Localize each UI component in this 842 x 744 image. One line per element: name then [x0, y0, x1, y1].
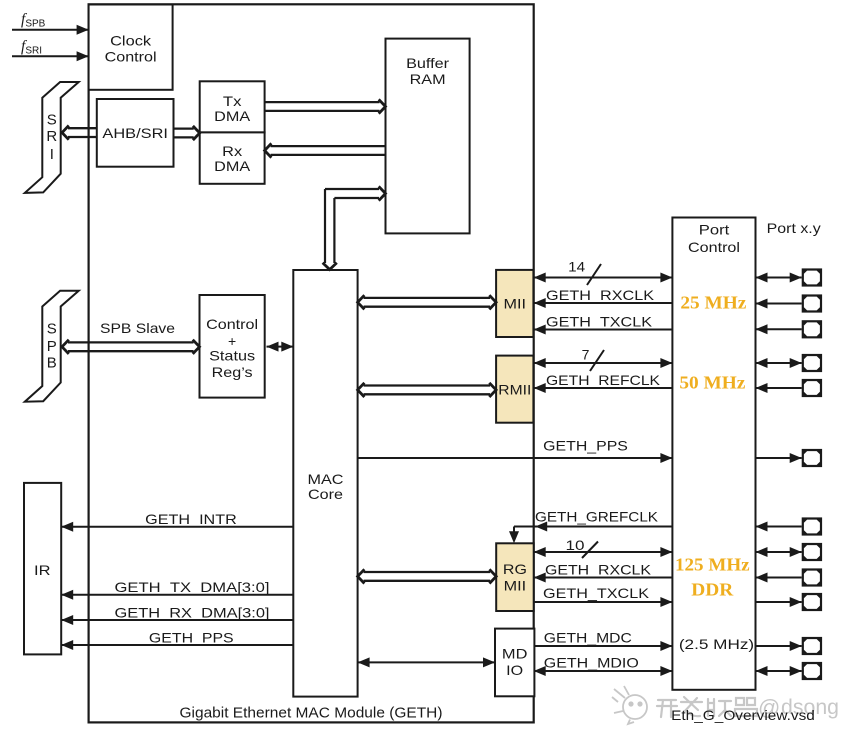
- module boundary Gigabit Ethernet MAC Module (GETH): [89, 4, 534, 722]
- wire Port Control to pad P6: [756, 453, 802, 463]
- svg-text:RG: RG: [503, 561, 527, 577]
- svg-text:I: I: [50, 146, 54, 163]
- IO pad P6: [802, 449, 822, 467]
- IO pad P10: [802, 593, 822, 611]
- IO pad P5: [802, 379, 822, 397]
- slash bus width 14: [587, 264, 601, 285]
- box Tx DMA: [200, 81, 265, 132]
- svg-text:Core: Core: [308, 486, 343, 502]
- svg-text:GETH_RXCLK: GETH_RXCLK: [545, 562, 652, 578]
- svg-text:MD: MD: [502, 646, 528, 662]
- svg-text:P: P: [47, 338, 57, 355]
- bus 7-bit RMII signals: [534, 358, 673, 368]
- svg-text:+: +: [228, 333, 236, 349]
- wire Port Control to pad P11: [756, 641, 802, 651]
- svg-text:GETH_INTR: GETH_INTR: [145, 511, 237, 527]
- wire Port Control to pad P1: [756, 273, 802, 283]
- slash bus width 7: [590, 350, 604, 371]
- svg-text:GETH_TXCLK: GETH_TXCLK: [543, 585, 650, 601]
- svg-text:S: S: [47, 321, 57, 338]
- bus 10-bit RGMII signals: [534, 547, 673, 557]
- svg-text:RAM: RAM: [410, 71, 446, 87]
- watermark logo: [612, 686, 647, 724]
- wire GETH_TXCLK (RGMII): [534, 597, 673, 607]
- bus Buffer RAM to Rx DMA: [265, 143, 386, 157]
- box Control + Status Reg's: [200, 295, 265, 398]
- svg-text:50 MHz: 50 MHz: [679, 373, 745, 393]
- svg-text:Gigabit Ethernet MAC Module (G: Gigabit Ethernet MAC Module (GETH): [180, 705, 443, 722]
- input wire fSPB: [12, 25, 89, 35]
- svg-text:Rx: Rx: [222, 143, 242, 159]
- wire GETH_PPS to IR: [61, 640, 293, 650]
- svg-text:SPB Slave: SPB Slave: [100, 320, 175, 336]
- bus ribbon SPB: [25, 291, 79, 402]
- svg-text:DMA: DMA: [214, 158, 251, 174]
- bus Tx DMA to Buffer RAM: [265, 99, 386, 113]
- box AHB/SRI: [97, 99, 174, 167]
- svg-text:Status: Status: [209, 348, 255, 364]
- svg-text:Reg’s: Reg’s: [212, 364, 253, 380]
- box RG MII: [496, 543, 534, 611]
- svg-text:R: R: [46, 128, 57, 145]
- box Buffer RAM: [386, 39, 470, 234]
- svg-text:(2.5 MHz): (2.5 MHz): [679, 636, 754, 652]
- bus SPB Slave double arrow: [62, 340, 200, 354]
- svg-text:GETH_RX_DMA[3:0]: GETH_RX_DMA[3:0]: [115, 604, 270, 620]
- svg-text:GETH_MDIO: GETH_MDIO: [544, 655, 639, 671]
- input wire fSRI: [12, 51, 89, 61]
- box MD IO: [495, 629, 534, 697]
- svg-text:Clock: Clock: [110, 33, 152, 49]
- bus AHB/SRI to SRI ribbon: [62, 126, 97, 140]
- bus ribbon SRI: [25, 82, 79, 193]
- svg-text:GETH_TX_DMA[3:0]: GETH_TX_DMA[3:0]: [115, 579, 270, 595]
- svg-text:7: 7: [582, 347, 590, 363]
- wire GETH_INTR MAC Core to IR: [61, 522, 293, 532]
- wire Control Status Regs to MAC Core: [267, 342, 294, 352]
- svg-text:25 MHz: 25 MHz: [680, 292, 746, 312]
- IO pad P2: [802, 294, 822, 312]
- IO pad P4: [802, 354, 822, 372]
- box Rx DMA: [200, 132, 265, 183]
- IO pad P8: [802, 543, 822, 561]
- svg-text:GETH_MDC: GETH_MDC: [544, 630, 632, 646]
- svg-text:Tx: Tx: [223, 93, 242, 109]
- svg-text:MAC: MAC: [308, 471, 344, 487]
- svg-text:S: S: [47, 112, 57, 129]
- IO pad P9: [802, 568, 822, 586]
- bus MAC Core to RG MII: [358, 569, 497, 583]
- wire GETH_GREFCLK to RG MII: [509, 522, 672, 544]
- wire Port Control to pad P10: [756, 597, 802, 607]
- IO pad P7: [802, 517, 822, 535]
- wire Port Control to pad P8: [756, 547, 802, 557]
- wire Port Control to pad P3: [756, 324, 802, 334]
- svg-text:B: B: [47, 355, 57, 372]
- wire GETH_TX_DMA[3:0] to IR: [61, 590, 293, 600]
- IO pad P3: [802, 320, 822, 338]
- bus AHB/SRI to Tx/Rx DMA: [174, 126, 200, 140]
- wire GETH_MDC: [534, 641, 673, 651]
- wire MAC Core to MD IO: [358, 657, 495, 667]
- svg-text:GETH_RXCLK: GETH_RXCLK: [546, 287, 655, 303]
- svg-text:GETH_PPS: GETH_PPS: [149, 629, 234, 645]
- bus MAC Core to RMII: [358, 383, 497, 397]
- svg-text:Buffer: Buffer: [406, 55, 449, 71]
- bus 14-bit MII signals: [534, 273, 673, 283]
- bus Buffer RAM to MAC Core (L-shaped): [323, 186, 386, 269]
- IO pad P1: [802, 268, 822, 286]
- box MII: [496, 270, 533, 337]
- box RMII: [496, 356, 533, 423]
- wire GETH_REFCLK (RMII): [534, 383, 673, 393]
- wire Port Control to pad P5: [756, 383, 802, 393]
- svg-text:DMA: DMA: [214, 108, 251, 124]
- wire Port Control to pad P9: [756, 573, 802, 583]
- box MAC Core: [293, 270, 357, 697]
- label 125 MHz DDR: [675, 555, 750, 600]
- svg-text:IO: IO: [506, 662, 523, 678]
- svg-text:14: 14: [568, 259, 585, 275]
- svg-text:125 MHz: 125 MHz: [675, 555, 750, 575]
- wire GETH_RXCLK (MII): [534, 298, 673, 308]
- box IR: [24, 483, 61, 655]
- svg-text:GETH_REFCLK: GETH_REFCLK: [546, 372, 661, 388]
- svg-text:GETH_GREFCLK: GETH_GREFCLK: [535, 509, 659, 525]
- svg-text:MII: MII: [504, 578, 527, 594]
- wire GETH_MDIO: [534, 666, 673, 676]
- watermark text: [657, 697, 757, 717]
- wire Port Control to pad P7: [756, 522, 802, 532]
- svg-text:IR: IR: [34, 562, 51, 578]
- box Port Control: [672, 218, 755, 690]
- svg-text:AHB/SRI: AHB/SRI: [102, 125, 168, 141]
- svg-text:Eth_G_Overview.vsd: Eth_G_Overview.vsd: [671, 707, 815, 723]
- svg-text:Control: Control: [688, 239, 740, 255]
- svg-text:Control: Control: [206, 316, 258, 332]
- wire GETH_TXCLK (MII): [534, 325, 673, 335]
- IO pad P11: [802, 637, 822, 655]
- wire Port Control to pad P4: [756, 358, 802, 368]
- svg-text:GETH_PPS: GETH_PPS: [543, 438, 628, 454]
- svg-text:GETH_TXCLK: GETH_TXCLK: [546, 314, 653, 330]
- svg-text:DDR: DDR: [691, 580, 734, 600]
- box Clock Control: [89, 5, 173, 90]
- wire GETH_RXCLK (RGMII): [534, 573, 673, 583]
- slash bus width 10: [582, 542, 598, 559]
- wire GETH_RX_DMA[3:0] to IR: [61, 615, 293, 625]
- svg-text:10: 10: [566, 537, 585, 553]
- svg-text:Port: Port: [699, 222, 730, 238]
- wire Port Control to pad P2: [756, 299, 802, 309]
- svg-text:Port x.y: Port x.y: [767, 220, 821, 236]
- IO pad P12: [802, 662, 822, 680]
- wire GETH_PPS to Port Control: [358, 453, 673, 463]
- svg-text:MII: MII: [504, 296, 527, 312]
- wire Port Control to pad P12: [756, 666, 802, 676]
- svg-text:RMII: RMII: [498, 381, 531, 397]
- svg-text:Control: Control: [105, 49, 157, 65]
- bus MAC Core to MII: [358, 295, 497, 309]
